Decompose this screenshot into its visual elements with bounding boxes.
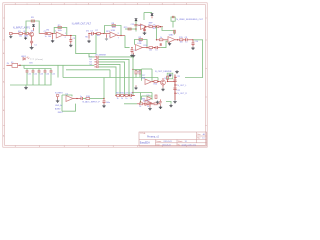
ground below C8 xyxy=(143,32,147,35)
resistor R13 feedback xyxy=(174,30,176,33)
svg-text:U6A: U6A xyxy=(141,76,146,79)
svg-text:1k: 1k xyxy=(139,106,141,108)
resistor R11 xyxy=(149,26,152,28)
op-amp U6B xyxy=(145,100,152,106)
header pin 2 lead xyxy=(175,84,177,86)
wire U6 loop left xyxy=(141,69,143,81)
svg-text:Q2: Q2 xyxy=(164,78,167,80)
wire bus line 1 xyxy=(99,57,133,96)
svg-text:10k: 10k xyxy=(48,36,51,38)
svg-text:R19: R19 xyxy=(116,93,119,95)
svg-text:C22: C22 xyxy=(177,90,180,92)
wire U6B loop left xyxy=(141,96,143,100)
relay K1 xyxy=(12,63,18,67)
junction pot node xyxy=(103,33,104,34)
svg-text:N_OUT_R: N_OUT_R xyxy=(177,93,187,95)
svg-text:2021-05-21: 2021-05-21 xyxy=(163,141,172,143)
ground mid chain xyxy=(134,87,137,90)
wire C19 gnd stub xyxy=(160,104,162,105)
wire U5 output xyxy=(73,98,81,100)
svg-text:A4: A4 xyxy=(203,133,205,136)
wire U5 loop bottom xyxy=(62,104,76,112)
ground below C5 xyxy=(130,54,134,57)
op-amp U3A xyxy=(141,24,148,30)
resistor R1 xyxy=(19,33,23,35)
junction C2 input xyxy=(131,47,132,48)
wire cap 2 bottom stub xyxy=(32,72,34,85)
wire into right block xyxy=(157,78,159,81)
wire C4 to R7 xyxy=(94,33,97,35)
ground below C10 xyxy=(191,47,195,50)
wire vdd branch xyxy=(135,21,137,32)
wire R12 on xyxy=(159,26,163,28)
junction bottom c xyxy=(151,103,152,104)
junction bus5 land xyxy=(115,95,116,96)
wire vcc stub xyxy=(33,28,35,31)
wire cap 5 top stub xyxy=(50,69,52,71)
svg-text:EasyEDA: EasyEDA xyxy=(140,142,150,145)
resistor R4 xyxy=(47,33,51,35)
svg-text:10k: 10k xyxy=(139,41,142,43)
capacitor C4 xyxy=(92,32,94,35)
wire shunt down xyxy=(52,34,54,39)
svg-text:1k: 1k xyxy=(117,98,119,100)
svg-text:C13: C13 xyxy=(40,74,43,76)
wire J1 to R1 xyxy=(12,33,19,35)
wire cap bank top xyxy=(24,68,52,70)
dotted leader xyxy=(30,58,34,60)
resistor R17 xyxy=(139,71,141,74)
power flag VDD xyxy=(135,19,138,21)
wire R15 to C9 xyxy=(183,39,186,41)
junction K1 node xyxy=(19,65,20,66)
svg-text:(-Curve): (-Curve) xyxy=(35,58,43,61)
svg-text:N_OUT_L: N_OUT_L xyxy=(177,85,187,87)
svg-text:1n: 1n xyxy=(130,98,132,100)
wire stage A to stage B route xyxy=(72,34,96,54)
svg-text:C23: C23 xyxy=(131,24,134,26)
header pin 2 xyxy=(174,84,175,85)
wire long mid-left net xyxy=(20,64,94,66)
wire U2 to stage C2 xyxy=(125,36,130,48)
wire R4 to U1 xyxy=(51,33,56,35)
capacitor C2 xyxy=(45,32,47,35)
capacitor C22 on header xyxy=(173,88,177,89)
junction U2 output xyxy=(120,35,121,36)
svg-text:1: 1 xyxy=(76,3,77,5)
svg-text:1u: 1u xyxy=(45,36,47,38)
op-amp U6A xyxy=(145,79,152,85)
wire R25 down xyxy=(167,79,169,81)
wire bottom chain 1 xyxy=(137,103,140,105)
wire gnd stub xyxy=(133,53,135,55)
svg-text:C12: C12 xyxy=(34,74,37,76)
jumper pin 3 xyxy=(96,61,98,62)
junction bus1 land xyxy=(132,95,133,96)
junction base node xyxy=(25,33,26,34)
op-amp U7 xyxy=(147,97,152,101)
svg-text:Date:: Date: xyxy=(156,143,161,146)
wire shunt C8 xyxy=(144,27,146,31)
title block outer box xyxy=(139,132,207,146)
junction bus3 land xyxy=(124,95,125,96)
junction U3A output xyxy=(145,26,146,27)
svg-text:N_AMP_OUT_FILT: N_AMP_OUT_FILT xyxy=(72,23,92,26)
wire base lead xyxy=(29,33,30,35)
wire shunt R6 xyxy=(88,34,90,38)
junction ref out xyxy=(160,26,161,27)
svg-text:N_VREF_BUFFERED_OUT: N_VREF_BUFFERED_OUT xyxy=(176,19,203,21)
svg-text:REF2: REF2 xyxy=(58,112,63,114)
wire R18 to node xyxy=(90,98,104,100)
wire Q2 collector xyxy=(162,78,164,80)
wire R1 to R2 xyxy=(23,33,25,35)
svg-text:1: 1 xyxy=(51,3,52,5)
wire cap 3 bottom stub xyxy=(38,72,40,85)
connector J2 xyxy=(56,95,58,97)
svg-text:google_audio_amp: google_audio_amp xyxy=(182,144,196,146)
jumper pin 5 lead xyxy=(94,66,96,68)
svg-text:10k: 10k xyxy=(19,36,22,38)
svg-text:C19: C19 xyxy=(129,93,132,95)
svg-text:Rev:: Rev: xyxy=(197,138,201,140)
wire U5 loop left xyxy=(61,95,63,111)
resistor R26 xyxy=(155,95,157,98)
ground at U1 input xyxy=(51,39,54,42)
op-amp U4 xyxy=(168,37,175,43)
ground below C1 xyxy=(30,46,34,49)
svg-text:GND_A: GND_A xyxy=(55,104,62,107)
junction bus2 land xyxy=(128,95,129,96)
wire J2 down xyxy=(57,97,59,100)
wire to C4 xyxy=(89,33,91,35)
jumper pin 4 lead xyxy=(94,63,96,65)
wire long center net xyxy=(63,77,158,79)
wire U2 feedback loop xyxy=(105,26,122,36)
wire cap 2 top stub xyxy=(32,69,34,71)
wire bottom chain 3 xyxy=(150,103,154,105)
capacitor C19 shunt xyxy=(159,99,161,102)
resistor R7 xyxy=(97,33,101,35)
wire C5 to ground xyxy=(131,52,133,54)
wire vdd rail left xyxy=(125,28,136,30)
wire to U2 xyxy=(104,33,110,35)
capacitor bank C11 xyxy=(26,71,29,72)
jumper pin 3 lead xyxy=(94,61,96,63)
capacitor C5 xyxy=(131,50,134,52)
svg-text:3: 3 xyxy=(55,31,56,33)
wire U5 loop top xyxy=(62,95,72,96)
resistor R2 xyxy=(25,33,29,35)
resistor R16 xyxy=(135,71,137,74)
capacitor C7 shunt xyxy=(160,43,162,46)
svg-text:1: 1 xyxy=(149,3,150,5)
ground at J1 xyxy=(9,35,12,38)
svg-text:C11: C11 xyxy=(28,74,31,76)
junction U2B output xyxy=(146,47,147,48)
wire R17 top stub xyxy=(139,70,141,71)
svg-text:1: 1 xyxy=(100,3,101,5)
wire shunt C10 xyxy=(192,40,194,42)
wire U4 output xyxy=(175,39,179,41)
wire shunt C3 xyxy=(70,36,72,39)
jumper pin 1 xyxy=(96,56,98,57)
jumper pin 2 xyxy=(96,59,98,60)
capacitor C18 xyxy=(130,94,132,97)
jumper pin 5 xyxy=(96,66,98,67)
power port pin xyxy=(172,16,174,18)
sheet frame inner border xyxy=(5,5,206,146)
wire cap bank bottom xyxy=(10,84,52,86)
svg-text:R20: R20 xyxy=(120,93,123,95)
wire bottom feed xyxy=(124,103,137,105)
capacitor C3 xyxy=(69,40,72,42)
resistor R8 xyxy=(112,25,115,27)
wire bottom chain 2 xyxy=(143,103,147,105)
wire lower loop top xyxy=(133,92,152,94)
wire gnd stub bank xyxy=(25,85,27,86)
svg-text:100: 100 xyxy=(31,30,34,32)
wire lower loop right xyxy=(151,93,153,97)
svg-text:R25: R25 xyxy=(169,74,172,76)
wire bus line 2 xyxy=(99,59,129,95)
resistor R5 xyxy=(58,26,61,28)
wire R16 bottom stub xyxy=(135,74,137,78)
svg-text:R24: R24 xyxy=(154,84,157,86)
resistor R27 xyxy=(125,95,128,97)
header pin 1 xyxy=(174,77,175,78)
wire R7 to pot xyxy=(100,33,104,35)
svg-text:2021-05-21: 2021-05-21 xyxy=(162,144,171,146)
transistor Q2 xyxy=(161,80,166,85)
wire collector loop xyxy=(26,21,39,34)
wire cap 5 bottom stub xyxy=(50,72,52,85)
ground below C17 xyxy=(102,104,106,107)
svg-text:100n: 100n xyxy=(106,102,110,104)
svg-text:Size:: Size: xyxy=(197,134,201,136)
ground below C19 xyxy=(159,106,162,109)
svg-text:U6B: U6B xyxy=(141,98,146,100)
capacitor C1 xyxy=(30,41,33,43)
wire emitter xyxy=(31,37,33,41)
svg-text:10k: 10k xyxy=(180,41,183,43)
connector J1 xyxy=(10,32,13,34)
junction after R10 xyxy=(154,47,155,48)
svg-text:1u: 1u xyxy=(185,42,187,44)
power port symbol xyxy=(171,17,175,21)
wire U6A out xyxy=(152,81,155,83)
frame tick marks xyxy=(3,3,207,147)
wire R14 to U4 xyxy=(163,39,168,41)
wire bus line 5 xyxy=(99,67,116,96)
op-amp U5 xyxy=(66,96,73,102)
wire shunt C17 xyxy=(103,99,105,101)
wire U4 feedback route xyxy=(162,27,175,35)
power flag at rail xyxy=(151,13,154,15)
ground bottom right xyxy=(169,104,172,107)
wire cap 1 top stub xyxy=(26,69,28,71)
wire U6B loop top xyxy=(142,95,153,97)
junction R25 node xyxy=(167,81,168,82)
svg-text:10k: 10k xyxy=(149,49,152,51)
resistor R25 xyxy=(167,76,169,79)
svg-text:U2A: U2A xyxy=(111,29,116,32)
svg-text:C18: C18 xyxy=(125,93,128,95)
ground top right block xyxy=(175,70,179,73)
svg-text:1/1: 1/1 xyxy=(185,141,187,143)
svg-text:N_INPUT_AMP1: N_INPUT_AMP1 xyxy=(13,27,31,30)
wire loop down xyxy=(140,102,142,104)
wire to R14 xyxy=(157,39,160,41)
ground below J2 xyxy=(56,99,60,102)
resistor R10 xyxy=(149,47,153,49)
wire cap 4 top stub xyxy=(44,69,46,71)
wire flag stub xyxy=(151,16,153,18)
junction output node xyxy=(70,35,71,36)
wire R10 to C6 xyxy=(153,47,156,49)
svg-text:Preamp_v2: Preamp_v2 xyxy=(147,136,159,139)
wire shunt stub xyxy=(131,48,133,49)
ground below C3 xyxy=(69,44,73,47)
wire bus line 3 xyxy=(99,62,125,96)
junction route tee xyxy=(95,33,96,34)
wire U3A out xyxy=(147,26,149,28)
svg-text:1k: 1k xyxy=(125,98,127,100)
capacitor bank C12 xyxy=(32,71,35,72)
svg-text:1k: 1k xyxy=(121,98,123,100)
wire U6 loop top xyxy=(142,68,153,70)
junction chain start xyxy=(156,39,157,40)
junction bottom b xyxy=(144,103,145,104)
svg-text:7: 7 xyxy=(118,37,119,39)
ground in loop xyxy=(168,74,171,77)
capacitor C9 xyxy=(186,38,188,41)
power flag VCC xyxy=(32,25,35,27)
wire collector to C2 xyxy=(39,33,45,35)
capacitor C17 xyxy=(103,101,106,103)
svg-text:C10: C10 xyxy=(195,41,198,43)
svg-text:1u: 1u xyxy=(80,96,82,98)
resistor R28 xyxy=(154,103,157,105)
jumper pin 1 lead xyxy=(94,56,96,58)
wire C10 to ground xyxy=(192,45,194,47)
wire bottom right L xyxy=(166,102,171,104)
svg-text:C14: C14 xyxy=(46,74,49,76)
resistor R3 xyxy=(31,20,34,22)
ground below R6 xyxy=(87,40,91,43)
junction bus1 tee xyxy=(132,92,133,93)
svg-text:47k: 47k xyxy=(86,30,89,32)
svg-text:R29: R29 xyxy=(124,27,127,29)
resistor R9 xyxy=(139,39,142,41)
wire into jumper top xyxy=(89,54,94,57)
resistor R18 xyxy=(86,98,90,100)
wire K1 out xyxy=(18,64,20,66)
wire center vertical tee xyxy=(109,70,111,78)
capacitor C8 xyxy=(143,29,146,31)
wire chain right end xyxy=(132,95,135,97)
ground floating bus xyxy=(132,54,135,57)
jumper pin 2 lead xyxy=(94,58,96,60)
resistor R23 xyxy=(147,103,150,105)
svg-text:1: 1 xyxy=(174,3,175,5)
svg-text:1u: 1u xyxy=(91,35,93,37)
wire Q2 emitter xyxy=(162,85,164,88)
junction vdd xyxy=(135,28,136,29)
capacitor C21 on header xyxy=(173,80,177,81)
wire R11 to R12 xyxy=(152,26,155,28)
svg-text:4.7k: 4.7k xyxy=(25,36,29,38)
wire U6B loop right xyxy=(151,96,153,100)
wire cap 1 bottom stub xyxy=(26,72,28,85)
wire left drop xyxy=(62,65,64,77)
header pin 3 xyxy=(174,93,175,94)
wire C3 to ground xyxy=(70,41,72,43)
wire cap 3 top stub xyxy=(38,69,40,71)
wire U1 output xyxy=(63,35,72,37)
wire C17 to gnd xyxy=(103,103,105,104)
wire gnd stub c xyxy=(149,104,151,107)
op-amp U1A xyxy=(56,32,63,38)
svg-text:Sheet:: Sheet: xyxy=(178,140,183,143)
pin header P1 xyxy=(174,75,176,101)
junction Q2 base xyxy=(158,81,159,82)
capacitor bank C14 xyxy=(44,71,47,72)
wire to header xyxy=(168,81,175,83)
wire cap 4 bottom stub xyxy=(44,72,46,85)
junction bus4 land xyxy=(119,95,120,96)
ground below header xyxy=(173,100,176,103)
wire bottom chain 4 xyxy=(157,103,160,105)
op-amp U2B xyxy=(136,45,143,51)
ground below R26 xyxy=(156,101,159,104)
wire from frame xyxy=(6,64,12,66)
wire U2B feedback loop xyxy=(135,40,148,48)
svg-text:10k: 10k xyxy=(97,35,100,37)
svg-text:1.0: 1.0 xyxy=(202,138,204,140)
junction U1 input xyxy=(52,33,53,34)
sheet background xyxy=(0,0,210,150)
junction ADC node xyxy=(103,98,104,99)
svg-text:5: 5 xyxy=(109,36,110,38)
svg-text:TITLE:: TITLE: xyxy=(140,133,146,135)
svg-text:1u: 1u xyxy=(155,50,157,52)
junction output filter xyxy=(192,39,193,40)
wire center horizontal 2 xyxy=(66,69,110,71)
junction stage B input xyxy=(88,33,89,34)
transistor Q1 xyxy=(30,32,34,36)
wire bus line 4 xyxy=(99,64,120,95)
wire R24 to Q2 xyxy=(157,81,161,83)
wire C9 to node xyxy=(187,39,193,41)
resistor R29 xyxy=(128,28,131,30)
wire long right route xyxy=(185,40,203,78)
ground at bias xyxy=(24,37,27,40)
jumper pin 4 xyxy=(96,64,98,65)
capacitor bank C13 xyxy=(38,71,41,72)
resistor R15 xyxy=(179,39,182,41)
resistor R20 xyxy=(121,95,124,97)
diode LED1 xyxy=(23,58,25,61)
wire C1 to ground xyxy=(31,43,33,46)
capacitor C10 xyxy=(192,43,195,45)
wire divider feed xyxy=(133,69,142,71)
junction bus1 divider tee xyxy=(132,69,133,70)
wire U2 output xyxy=(117,35,125,37)
svg-text:N_ADC_INPUT_F: N_ADC_INPUT_F xyxy=(83,101,101,104)
wire U2 gnd stub xyxy=(106,34,108,37)
svg-text:C21: C21 xyxy=(177,76,180,78)
